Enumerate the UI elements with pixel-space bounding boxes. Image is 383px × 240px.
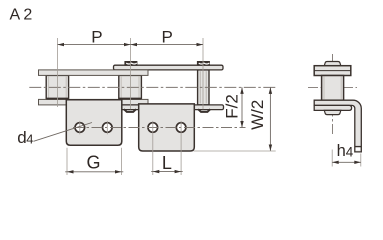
pin rivet bottom 2 xyxy=(124,109,136,112)
chain top view xyxy=(39,65,224,109)
svg-text:d: d xyxy=(17,128,26,147)
holes centerline xyxy=(73,127,246,129)
d4 leader xyxy=(34,123,93,142)
pin rivet bottom 3 xyxy=(198,109,210,112)
lug1 hole right xyxy=(103,123,113,133)
roller R1 xyxy=(46,75,68,99)
pin 3 barrel xyxy=(198,70,209,105)
chain centerline xyxy=(29,86,276,88)
svg-text:P: P xyxy=(91,27,102,46)
svg-text:L: L xyxy=(162,153,172,173)
svg-text:A 2: A 2 xyxy=(10,7,33,24)
pin3 interior shading xyxy=(200,71,206,103)
svg-text:W/2: W/2 xyxy=(248,100,267,130)
bent attachment plate xyxy=(314,100,361,152)
straight outer plate end view xyxy=(314,105,351,110)
W/2 dimension xyxy=(269,87,271,151)
P dimension lines xyxy=(58,44,204,46)
h4 dimension xyxy=(332,150,361,167)
attachment lug 1 xyxy=(66,100,122,145)
bushing block xyxy=(322,76,344,101)
pin head bottom xyxy=(324,110,341,114)
svg-text:P: P xyxy=(162,27,173,46)
leg hole notch xyxy=(355,146,362,148)
L dimension xyxy=(153,121,181,175)
F/2 dimension xyxy=(241,87,243,127)
P extension lines xyxy=(58,38,204,109)
link plate bottom inner xyxy=(39,99,149,105)
svg-text:F/2: F/2 xyxy=(223,94,242,119)
roller dark bottom edges xyxy=(46,98,141,100)
svg-text:G: G xyxy=(86,153,100,173)
lug2 hole left xyxy=(148,123,158,133)
link plate top inner xyxy=(39,70,149,76)
lug1 hole left d4 xyxy=(75,123,85,133)
pin head top xyxy=(324,62,341,66)
pin cap top 3 xyxy=(197,62,209,66)
svg-text:4: 4 xyxy=(26,132,33,147)
end view vertical centerline xyxy=(332,54,334,135)
G dimension xyxy=(67,148,122,175)
arrows P xyxy=(58,43,204,46)
pin cap top 2 xyxy=(125,62,137,66)
svg-text:h: h xyxy=(337,142,346,160)
link plate bottom outer xyxy=(114,105,224,110)
link plate top outer xyxy=(114,65,224,70)
lug2 hole right xyxy=(176,123,186,133)
top plates end view xyxy=(314,66,351,76)
roller interior shading xyxy=(49,76,139,98)
roller R2 xyxy=(119,75,142,99)
hole center vertical marks xyxy=(80,121,108,134)
end view horizontal centerline xyxy=(308,86,357,88)
svg-text:4: 4 xyxy=(346,145,354,160)
attachment lug 2 xyxy=(139,104,195,151)
